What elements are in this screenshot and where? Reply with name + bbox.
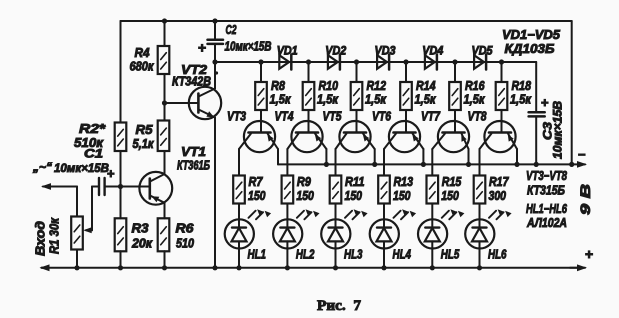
wire R18 to VT8 base	[501, 110, 503, 133]
resistor R13 150	[378, 176, 390, 204]
wire VT8 emitter to bus	[516, 149, 518, 164]
resistor R18 1.5k	[496, 82, 508, 110]
LED HL4 AL102A	[370, 219, 399, 248]
wire R10 to VT4 base	[308, 110, 310, 133]
node HL6 ground	[477, 265, 482, 270]
svg-text:R8: R8	[271, 79, 285, 93]
wire VT4 emitter to bus	[325, 149, 327, 164]
node R3 ground	[118, 265, 123, 270]
svg-text:10мк×15В: 10мк×15В	[553, 101, 565, 159]
svg-text:„~“: „~“	[32, 160, 52, 174]
svg-text:R6: R6	[176, 222, 195, 236]
resistor R12 1.5k	[351, 82, 363, 110]
resistor R14 1.5k	[400, 82, 412, 110]
diode VD5	[474, 55, 484, 69]
resistor R4	[158, 46, 170, 74]
svg-text:+: +	[585, 246, 593, 262]
svg-text:1,5к: 1,5к	[415, 93, 437, 107]
LED HL6 AL102A	[465, 219, 494, 248]
svg-text:C2: C2	[226, 23, 237, 37]
svg-text:HL5: HL5	[441, 248, 460, 262]
svg-text:R11: R11	[345, 175, 365, 189]
svg-text:R14: R14	[416, 79, 436, 93]
node emitter bus VT7	[466, 162, 471, 167]
wire R13 to HL4	[383, 204, 385, 220]
svg-text:VT8: VT8	[468, 109, 488, 124]
diode VD2	[328, 55, 338, 69]
LED HL1 AL102A	[225, 219, 254, 248]
svg-text:VD3: VD3	[375, 44, 396, 58]
potentiometer R1 30k	[71, 217, 83, 250]
wire VT6 emitter to bus	[422, 149, 424, 164]
transistor VT2 KT342V	[189, 87, 221, 119]
svg-text:КД103Б: КД103Б	[505, 42, 555, 56]
transistor VT5 KT315B	[339, 121, 370, 152]
wire VT5 emitter to bus	[374, 149, 376, 164]
wire tap to R18	[501, 62, 503, 82]
capacitor C2	[208, 38, 224, 41]
node HL4 ground	[381, 265, 386, 270]
svg-text:150: 150	[441, 189, 459, 203]
transistor VT6 KT315B	[389, 121, 420, 152]
resistor R7 150	[233, 176, 245, 204]
svg-text:+: +	[541, 95, 549, 110]
node VT2 emitter ground	[212, 265, 217, 270]
node right rail bus junction	[569, 162, 574, 167]
resistor R3	[115, 218, 127, 251]
node C3 bus junction	[534, 162, 539, 167]
wire top supply rail	[121, 20, 572, 22]
wire tap to R14	[405, 62, 407, 82]
LED HL2 AL102A	[273, 219, 302, 248]
svg-text:R3: R3	[132, 222, 149, 236]
transistor VT4 KT315B	[291, 121, 322, 152]
svg-text:R13: R13	[394, 175, 414, 189]
svg-text:R10: R10	[319, 79, 339, 93]
resistor R10 1.5k	[303, 82, 315, 110]
svg-text:10мк×15В: 10мк×15В	[54, 161, 109, 175]
wire diode chain row	[215, 61, 536, 63]
resistor R2*	[115, 123, 127, 152]
svg-text:10мк×15В: 10мк×15В	[225, 40, 272, 54]
node diode row tap R10	[306, 59, 311, 64]
wire tap to R10	[308, 62, 310, 82]
svg-text:КТ342В: КТ342В	[172, 75, 211, 89]
arrow bottom-right plus terminal	[577, 264, 587, 271]
resistor R8 1.5k	[255, 82, 267, 110]
svg-text:КТ315Б: КТ315Б	[527, 184, 565, 198]
node diode row tap R8	[258, 59, 263, 64]
node diode row left	[212, 59, 217, 64]
wire VT4 collector to R9	[286, 149, 288, 176]
wire C3 column	[535, 62, 537, 112]
resistor R6	[158, 218, 170, 251]
resistor R11 150	[330, 176, 342, 204]
svg-text:HL4: HL4	[393, 248, 412, 262]
svg-text:VT5: VT5	[323, 109, 343, 124]
svg-text:АЛ102А: АЛ102А	[526, 216, 567, 230]
node emitter bus VT4	[324, 162, 329, 167]
resistor R16 1.5k	[449, 82, 461, 110]
wire R7 to HL1	[238, 204, 240, 220]
svg-text:1,5к: 1,5к	[510, 93, 532, 107]
wire bottom plus rail	[42, 267, 579, 269]
svg-text:VT4: VT4	[275, 109, 295, 124]
svg-text:R12: R12	[367, 79, 387, 93]
svg-text:R1 30к: R1 30к	[48, 217, 62, 254]
svg-text:150: 150	[393, 189, 411, 203]
svg-text:Вход: Вход	[33, 221, 48, 256]
diode VD1	[279, 55, 289, 69]
node emitter bus VT5	[372, 162, 377, 167]
wire R2* to base node	[120, 151, 122, 218]
arrow bottom-left terminal	[42, 267, 48, 269]
wire R16 to VT7 base	[454, 110, 456, 133]
svg-text:VD1: VD1	[277, 44, 298, 58]
svg-text:VD1−VD5: VD1−VD5	[502, 28, 561, 42]
svg-text:R7: R7	[249, 175, 264, 189]
svg-text:R5: R5	[136, 123, 154, 137]
resistor R9 150	[282, 176, 294, 204]
node C2 top	[212, 18, 217, 23]
svg-text:R4: R4	[135, 46, 150, 60]
svg-text:HL1−HL6: HL1−HL6	[526, 202, 568, 216]
wire rail to C2	[214, 21, 216, 39]
svg-text:+: +	[198, 40, 206, 56]
wire left rail upper segment	[120, 21, 122, 123]
svg-text:5,1к: 5,1к	[133, 137, 155, 151]
svg-text:Рис. 7: Рис. 7	[317, 298, 361, 314]
wire emitter bus	[278, 163, 572, 165]
svg-text:С1: С1	[84, 147, 103, 161]
svg-text:R15: R15	[442, 175, 462, 189]
svg-text:150: 150	[296, 189, 314, 203]
wire rail to R4	[164, 21, 166, 46]
svg-text:R17: R17	[489, 175, 509, 189]
svg-text:VT1: VT1	[181, 144, 206, 159]
svg-text:VT7: VT7	[421, 109, 441, 124]
node base divider junction	[118, 184, 123, 189]
node R4 top	[162, 18, 167, 23]
wire tap to R8	[260, 62, 262, 82]
node diode row tap R14	[403, 59, 408, 64]
svg-text:R18: R18	[512, 79, 532, 93]
resistor R17 300	[474, 176, 486, 204]
wire R3 to bottom rail	[120, 251, 122, 267]
node HL1 ground	[236, 265, 241, 270]
svg-text:9 В: 9 В	[577, 184, 593, 215]
svg-text:HL3: HL3	[344, 248, 363, 262]
arrow bus minus terminal	[577, 161, 587, 168]
transistor VT7 KT315B	[438, 121, 469, 152]
svg-text:VT3−VT8: VT3−VT8	[526, 169, 567, 183]
svg-text:1,5к: 1,5к	[270, 93, 292, 107]
svg-text:R16: R16	[465, 79, 485, 93]
transistor VT1 KT361B	[139, 172, 172, 205]
diode VD4	[425, 55, 435, 69]
resistor R5	[158, 121, 170, 152]
svg-text:КТ361Б: КТ361Б	[177, 159, 210, 173]
wire R5 to VT1 collector	[164, 151, 166, 174]
wire input top lead	[43, 186, 77, 188]
wire R8 to VT3 base	[260, 110, 262, 133]
node emitter bus VT8	[514, 162, 519, 167]
wire VT8 collector to R17	[479, 149, 481, 176]
wire tap to R12	[356, 62, 358, 82]
wire R6 to bottom rail	[164, 251, 166, 267]
svg-text:150: 150	[345, 189, 363, 203]
svg-text:150: 150	[248, 189, 266, 203]
wire VT7 collector to R15	[431, 149, 433, 176]
node VT2 base tap	[162, 100, 167, 105]
wire R4 to R5 with VT2 base tap	[164, 74, 166, 121]
svg-text:VD2: VD2	[325, 44, 346, 58]
node diode row tap R12	[354, 59, 359, 64]
svg-text:1,5к: 1,5к	[464, 93, 486, 107]
wire R12 to VT5 base	[356, 110, 358, 133]
svg-text:VD5: VD5	[472, 44, 493, 58]
svg-text:HL6: HL6	[488, 248, 507, 262]
wire R9 to HL2	[286, 204, 288, 220]
node HL3 ground	[333, 265, 338, 270]
transistor VT8 KT315B	[484, 121, 515, 152]
node diode row tap R16	[452, 59, 457, 64]
wire input corner to R1	[76, 187, 78, 217]
node HL2 ground	[285, 265, 290, 270]
svg-text:VT6: VT6	[372, 109, 392, 124]
svg-text:680к: 680к	[130, 60, 155, 74]
svg-text:R2*: R2*	[79, 122, 106, 136]
wire R15 to HL5	[431, 204, 433, 220]
svg-text:20к: 20к	[131, 237, 153, 251]
node R6 ground	[162, 265, 167, 270]
node emitter bus VT6	[421, 162, 426, 167]
wire R1 to bottom rail	[76, 250, 78, 268]
capacitor C3	[529, 111, 545, 114]
LED HL3 AL102A	[321, 219, 350, 248]
svg-text:VT3: VT3	[227, 109, 247, 124]
wire C1 to VT1 base	[105, 186, 150, 188]
wire tap to R16	[454, 62, 456, 82]
wire VT5 collector to R11	[335, 149, 337, 176]
wire VT2 collector to diode node	[214, 62, 216, 89]
wire right rail from top to bus	[571, 21, 573, 164]
svg-text:HL2: HL2	[296, 248, 315, 262]
wire VT1 emitter to R6	[164, 203, 166, 219]
svg-text:300: 300	[489, 189, 507, 203]
diode VD3	[377, 55, 387, 69]
node diode row tap R18	[499, 59, 504, 64]
svg-text:−: −	[578, 147, 586, 162]
wire R17 to HL6	[479, 204, 481, 220]
svg-text:VD4: VD4	[422, 44, 443, 58]
svg-text:1,5к: 1,5к	[317, 93, 339, 107]
svg-text:510: 510	[176, 237, 194, 251]
svg-text:HL1: HL1	[248, 248, 267, 262]
wire VT6 collector to R13	[383, 149, 385, 176]
wire R11 to HL3	[335, 204, 337, 220]
resistor R15 150	[427, 176, 439, 204]
wire VT3 collector to R7	[238, 149, 240, 176]
svg-text:R9: R9	[297, 175, 311, 189]
node HL5 ground	[430, 265, 435, 270]
capacitor C1	[98, 178, 100, 195]
wire VT3 emitter to bus	[277, 149, 279, 164]
transistor VT3 KT315B	[244, 121, 275, 152]
wire R14 to VT6 base	[405, 110, 407, 133]
LED HL5 AL102A	[418, 219, 447, 248]
node R1 ground	[74, 265, 79, 270]
wire VT7 emitter to bus	[468, 149, 470, 164]
wire VT2 emitter to bottom rail	[214, 118, 216, 268]
svg-text:1,5к: 1,5к	[365, 93, 387, 107]
